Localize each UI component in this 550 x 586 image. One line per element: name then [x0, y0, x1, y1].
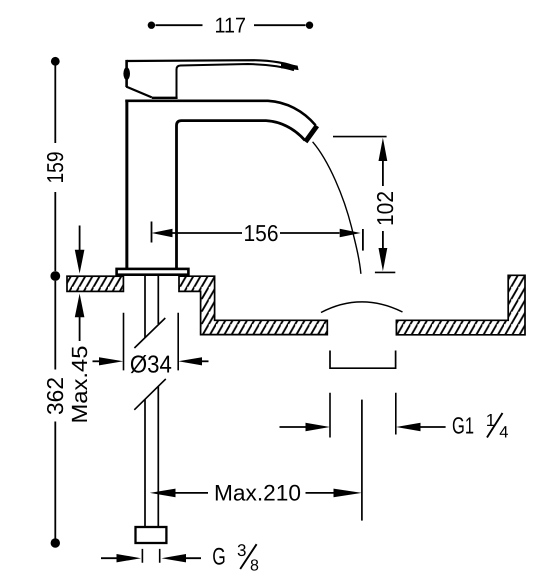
- svg-text:3: 3: [237, 541, 246, 560]
- faucet body top and spout outer curve: [125, 101, 315, 126]
- drain outline: [330, 351, 396, 369]
- dimension Max.45: [67, 226, 92, 424]
- faucet body left edge: [125, 100, 128, 269]
- svg-text:362: 362: [42, 377, 68, 415]
- faucet lever left edge: [125, 60, 128, 87]
- countertop middle section with basin step: [179, 276, 327, 334]
- faucet shank lower right line: [157, 387, 159, 528]
- faucet lever underside: [177, 64, 295, 98]
- svg-text:159: 159: [42, 152, 68, 184]
- svg-text:4: 4: [499, 424, 508, 442]
- faucet shank upper right line: [157, 276, 159, 325]
- faucet lever tip face: [281, 63, 299, 70]
- pipe break slash upper: [134, 318, 165, 348]
- dimension 117 top: [148, 13, 313, 37]
- faucet lever bottom line: [152, 97, 178, 99]
- countertop left section: [67, 276, 123, 291]
- water mound over drain: [321, 302, 403, 313]
- dimension diameter 34: [93, 313, 209, 379]
- countertop right section with raised rim: [396, 275, 525, 335]
- svg-text:Max.210: Max.210: [214, 481, 301, 506]
- faucet aerator tip face: [305, 126, 317, 142]
- dimension 362 left lower: [42, 271, 68, 548]
- svg-text:156: 156: [244, 220, 279, 246]
- dimension 156: [152, 220, 363, 250]
- faucet lever lower diagonal: [126, 87, 152, 98]
- pipe break slash lower: [134, 379, 166, 410]
- faucet base plate: [117, 269, 189, 275]
- svg-text:Max.45: Max.45: [67, 346, 92, 424]
- faucet body right edge and spout inner curve: [177, 121, 305, 269]
- dimension G1 1/4: [280, 393, 509, 442]
- svg-text:G1: G1: [452, 413, 474, 439]
- dimension Max.210: [150, 481, 362, 506]
- supply connector: [136, 527, 167, 543]
- water stream arc: [313, 142, 361, 274]
- drain center line: [361, 400, 363, 521]
- dimension 159 left upper: [42, 57, 68, 271]
- svg-text:Ø34: Ø34: [130, 351, 172, 378]
- faucet lever top edge: [127, 60, 297, 67]
- dimension 102: [333, 137, 398, 273]
- svg-text:G: G: [212, 543, 226, 570]
- svg-text:102: 102: [372, 191, 398, 226]
- faucet shank lower left line: [144, 400, 146, 528]
- svg-text:8: 8: [250, 558, 259, 575]
- dimension G 3/8: [101, 541, 259, 575]
- faucet shank upper left line: [144, 276, 146, 338]
- svg-text:117: 117: [214, 13, 246, 37]
- faucet lever front bulge: [123, 67, 130, 80]
